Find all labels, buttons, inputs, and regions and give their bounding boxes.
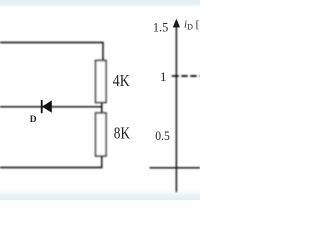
- y-axis line: [175, 21, 177, 192]
- resistor R1 4K body: [96, 61, 106, 103]
- diode D: [42, 100, 52, 113]
- svg-text:0.5: 0.5: [155, 128, 170, 143]
- svg-text:8K: 8K: [114, 123, 131, 142]
- wire junction between R1 and R2: [101, 103, 103, 114]
- wire diode net: [0, 106, 102, 108]
- tick at i=1: [172, 75, 179, 77]
- y-axis arrowhead: [173, 19, 180, 28]
- decorative top strip: [0, 0, 200, 8]
- wire top rail: [0, 43, 103, 61]
- dashed guide at i=1: [181, 75, 200, 77]
- svg-text:4K: 4K: [113, 71, 130, 90]
- svg-text:iD [: iD [: [184, 19, 200, 32]
- svg-text:1.5: 1.5: [153, 20, 168, 35]
- svg-text:D: D: [30, 115, 37, 125]
- decorative bottom strip: [0, 190, 200, 200]
- svg-text:1: 1: [160, 69, 167, 84]
- resistor R2 8K body: [96, 113, 106, 156]
- x-axis line: [150, 167, 201, 169]
- wire bottom rail: [0, 156, 102, 168]
